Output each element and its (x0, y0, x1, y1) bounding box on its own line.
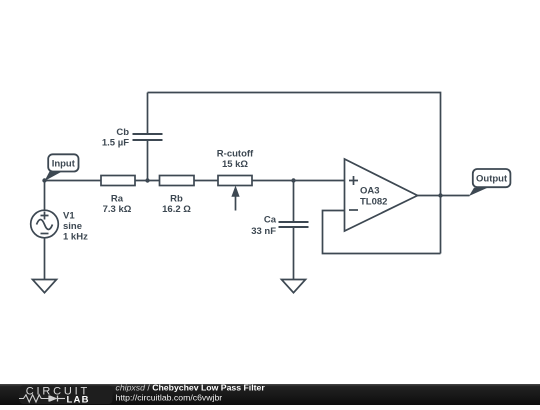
flag Output (469, 169, 510, 196)
logo resistor-diode squiggle (19, 395, 65, 402)
trimmer wiper arrow (232, 187, 239, 211)
label R-cutoff value (217, 149, 254, 171)
flag Input (45, 154, 79, 181)
wire op-amp minus feedback (323, 211, 441, 254)
node Cb junction (145, 178, 149, 182)
ground (Ca) (282, 280, 306, 293)
ground (V1) (33, 280, 57, 293)
wire V1 top (44, 181, 46, 211)
svg-text:Output: Output (476, 174, 508, 185)
label OA3 TL082 (360, 185, 387, 207)
svg-text:15 kΩ: 15 kΩ (222, 159, 248, 170)
footer bar (0, 384, 540, 405)
wire V1 bottom to ground (44, 238, 46, 280)
label Cb value (102, 127, 129, 149)
wire Ca upper vertical (293, 181, 295, 223)
svg-text:LAB: LAB (67, 395, 90, 406)
svg-text:Rb: Rb (170, 194, 183, 205)
label V1 value (63, 211, 88, 243)
svg-text:sine: sine (63, 221, 82, 232)
voltage source V1 (31, 210, 59, 238)
resistor Ra (101, 176, 135, 186)
svg-text:1 kHz: 1 kHz (63, 232, 88, 243)
svg-text:33 nF: 33 nF (251, 226, 276, 237)
logo badge (20, 386, 113, 405)
svg-text:TL082: TL082 (360, 197, 387, 208)
label Ra value (103, 194, 132, 216)
svg-text:Ra: Ra (111, 194, 124, 205)
node Output junction (438, 193, 442, 197)
resistor R-cutoff (trimmer) (218, 176, 252, 186)
svg-text:16.2 Ω: 16.2 Ω (162, 204, 191, 215)
svg-text:1.5 µF: 1.5 µF (102, 137, 129, 148)
wire main horizontal net (Input to op-amp +) (45, 180, 345, 182)
svg-text:Ca: Ca (264, 215, 277, 226)
svg-text:7.3 kΩ: 7.3 kΩ (103, 204, 132, 215)
wire Cb lower vertical to main net (147, 140, 149, 181)
wire Ca lower vertical to ground (293, 227, 295, 280)
wire Cb upper vertical (147, 93, 149, 135)
node Input/V1 junction (42, 178, 46, 182)
svg-text:V1: V1 (63, 211, 75, 222)
svg-text:OA3: OA3 (360, 185, 380, 196)
resistor Rb (160, 176, 195, 186)
op-amp plus input marker (349, 176, 358, 185)
svg-text:Input: Input (52, 158, 76, 169)
svg-text:R-cutoff: R-cutoff (217, 149, 254, 160)
op-amp OA3 (345, 159, 418, 231)
svg-text:http://circuitlab.com/c6vwjbr: http://circuitlab.com/c6vwjbr (116, 392, 223, 402)
svg-text:chipxsd / Chebychev Low Pass F: chipxsd / Chebychev Low Pass Filter (116, 383, 266, 393)
node junction dots (42, 178, 442, 197)
label Ca value (251, 215, 277, 237)
label Rb value (162, 194, 191, 216)
wire top feedback net (148, 93, 441, 254)
svg-text:Cb: Cb (116, 127, 129, 138)
capacitor Ca (279, 222, 309, 227)
op-amp minus input marker (349, 209, 358, 211)
capacitor Cb (133, 134, 163, 140)
node Ca junction (291, 178, 295, 182)
wire output (418, 195, 470, 197)
